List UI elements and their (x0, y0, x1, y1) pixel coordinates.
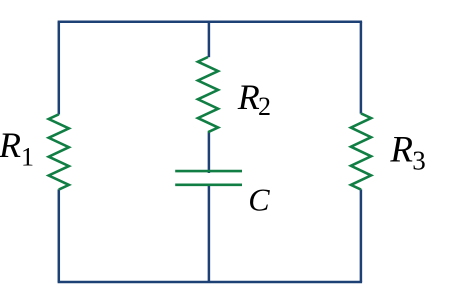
resistor R1 (49, 114, 69, 189)
wire middle upper (208, 22, 211, 58)
capacitor C bottom plate (175, 184, 242, 187)
svg-text:R: R (0, 125, 21, 165)
svg-text:R: R (237, 77, 260, 117)
svg-text:R: R (389, 130, 413, 171)
svg-text:3: 3 (412, 146, 426, 176)
wire left lower (58, 189, 61, 282)
wire middle lower (208, 185, 211, 282)
svg-text:C: C (248, 182, 270, 218)
svg-text:1: 1 (21, 143, 34, 172)
wire left upper (58, 22, 61, 115)
wire right lower (360, 189, 363, 282)
wire bottom edge (58, 281, 363, 284)
resistor R3 (351, 113, 371, 189)
wire right upper (360, 22, 363, 114)
capacitor C top plate (175, 170, 242, 173)
wire top edge (58, 20, 363, 23)
resistor R2 (198, 57, 218, 132)
svg-text:2: 2 (258, 92, 271, 121)
wire middle between R2 and C (208, 132, 211, 173)
